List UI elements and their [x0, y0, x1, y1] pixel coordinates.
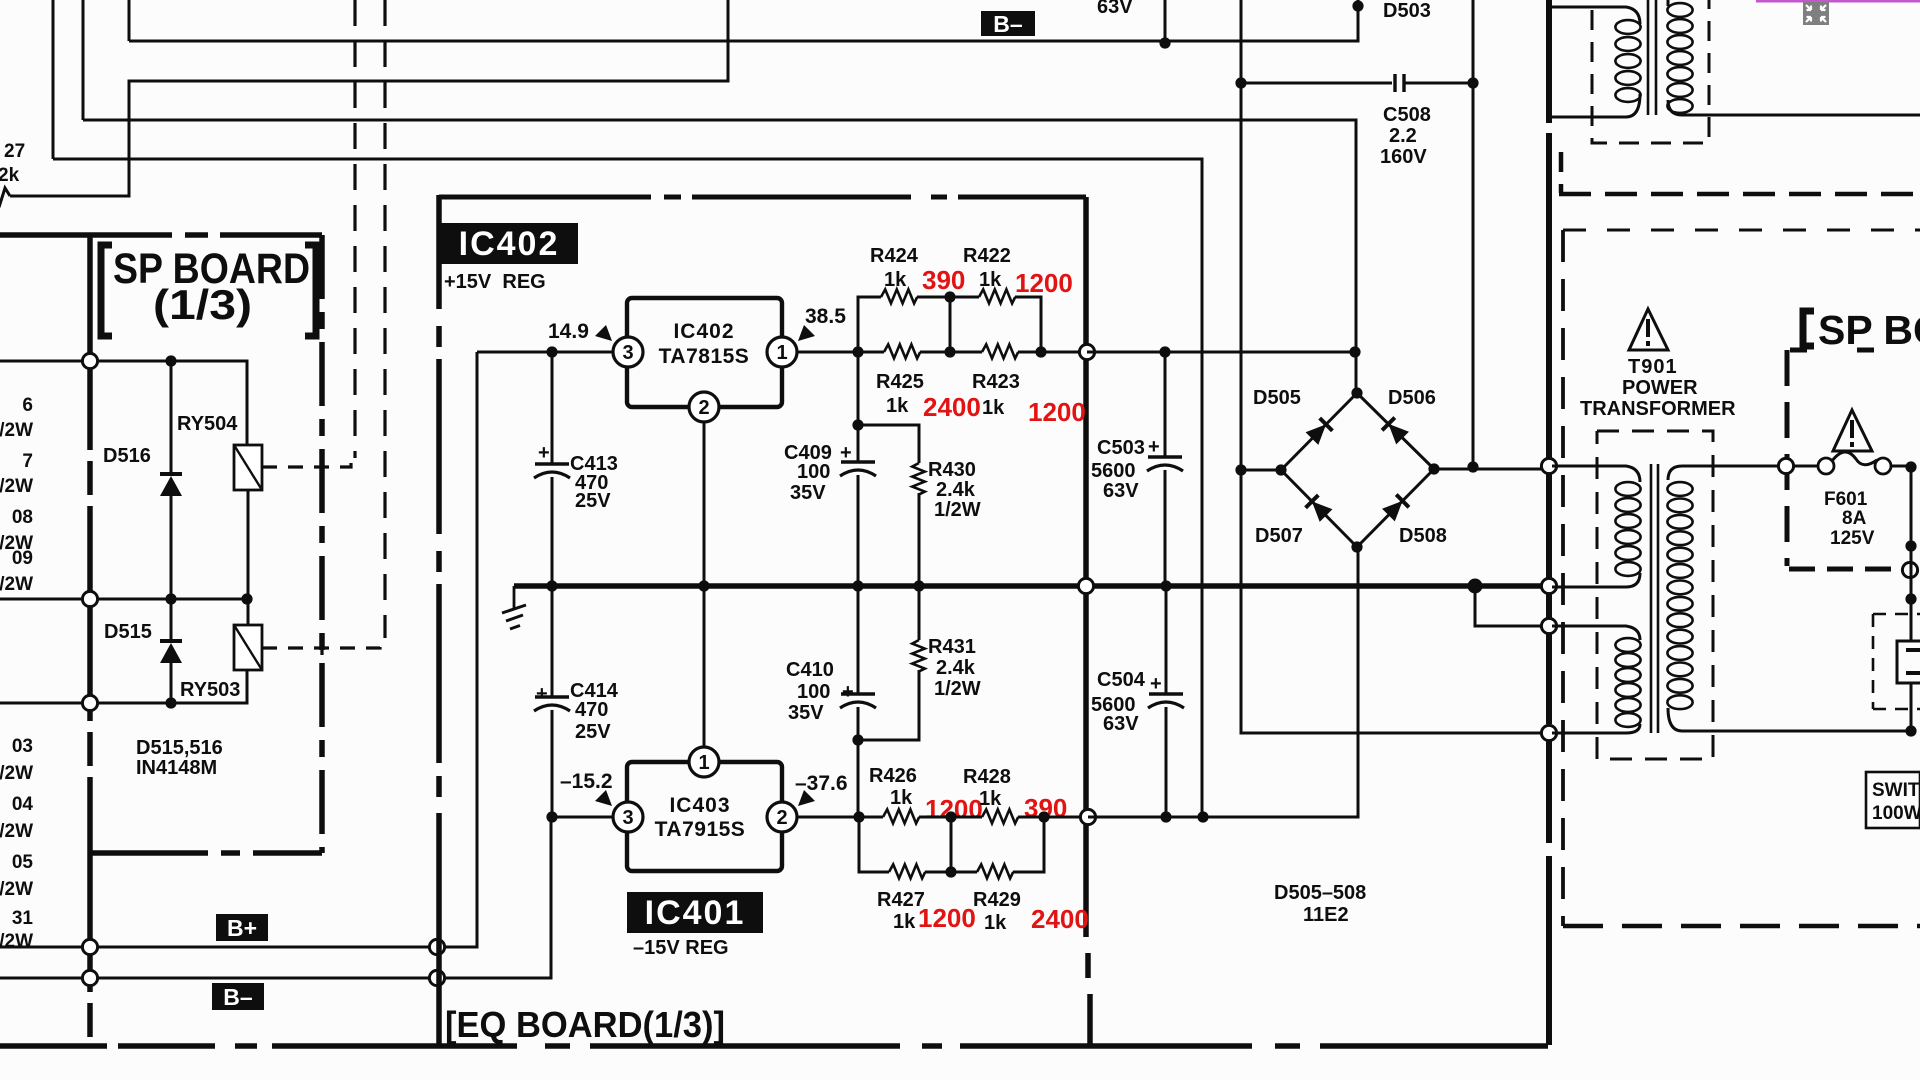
- wire B- into IC403 pin3: [551, 816, 613, 819]
- wire R424 to node: [917, 296, 950, 299]
- wire -15V rail: [1088, 547, 1358, 817]
- transformer T901 upper primary bottom lead: [1552, 94, 1640, 117]
- svg-text:11E2: 11E2: [1303, 904, 1349, 926]
- label red 1200 R426: [925, 794, 983, 824]
- connector circle winding2 bottom: [1541, 725, 1556, 740]
- label C503 value: [1091, 460, 1136, 482]
- svg-text:F601: F601: [1824, 489, 1868, 510]
- wire R423 to boundary: [1018, 351, 1086, 354]
- svg-text:1k: 1k: [890, 787, 913, 809]
- svg-text:IC402: IC402: [459, 225, 560, 263]
- gray collapse icon: [1803, 2, 1829, 25]
- label SP BOARD text: [113, 245, 310, 293]
- connector circle B- at x90: [82, 970, 97, 985]
- svg-text:1k: 1k: [886, 395, 909, 417]
- node C413 top: [546, 346, 557, 357]
- svg-text:R430: R430: [928, 459, 976, 481]
- svg-text:/2W: /2W: [0, 879, 33, 900]
- node switch line mid1: [1905, 540, 1916, 551]
- wire C503 lower lead: [1164, 470, 1167, 586]
- node D503 junction: [1352, 0, 1363, 11]
- svg-text:POWER: POWER: [1622, 377, 1698, 399]
- EQ board bottom boundary: [0, 1043, 1548, 1049]
- label R422: [963, 245, 1011, 267]
- warning triangle T901: [1629, 309, 1668, 350]
- svg-text:R424: R424: [870, 245, 919, 267]
- label R428: [963, 766, 1011, 788]
- wire R422 from node: [950, 296, 979, 299]
- svg-text:R423: R423: [972, 371, 1020, 393]
- SP board bottom boundary: [90, 850, 322, 856]
- label C414 plus: [536, 683, 548, 705]
- node D515 bottom: [165, 697, 176, 708]
- label D505: [1253, 387, 1301, 409]
- capacitor C409: [840, 462, 876, 476]
- label C508: [1383, 104, 1431, 126]
- labels left margin cut-off component values: [0, 395, 33, 952]
- svg-text:04: 04: [12, 794, 34, 815]
- label C508 value: [1389, 125, 1417, 147]
- svg-text:470: 470: [575, 699, 608, 721]
- wire R429 right corner up: [1013, 817, 1044, 872]
- wire outlet to AC return: [1910, 683, 1913, 731]
- wire R422 right corner down: [1015, 297, 1041, 352]
- label red 2400 R429: [1031, 904, 1089, 934]
- transformer T901 upper secondary top lead: [1667, 0, 1670, 6]
- label C504: [1097, 669, 1146, 691]
- label RY504: [177, 413, 238, 435]
- svg-text:R422: R422: [963, 245, 1011, 267]
- node switch line mid2: [1905, 593, 1916, 604]
- wire C413 upper lead: [551, 352, 554, 463]
- label C409 plus: [840, 442, 852, 464]
- svg-text:C508: C508: [1383, 104, 1431, 126]
- AC outlet symbol: [1897, 641, 1920, 683]
- svg-text:1k: 1k: [884, 269, 907, 291]
- label C504 value: [1091, 694, 1136, 716]
- wire C508 left lead: [1241, 82, 1392, 85]
- svg-text:63V: 63V: [1103, 480, 1139, 502]
- magenta top bar: [1756, 0, 1920, 3]
- transformer T901 upper secondary bottom lead: [1668, 100, 1920, 115]
- label C410 value: [797, 681, 830, 703]
- svg-text:–37.6: –37.6: [795, 772, 848, 795]
- wire D516 branch lower: [170, 496, 173, 599]
- wire C410 upper lead: [857, 586, 860, 693]
- svg-text:125V: 125V: [1830, 528, 1875, 549]
- IC402 pin 2: [689, 392, 719, 422]
- svg-text:/2W: /2W: [0, 821, 33, 842]
- label red 1200 R427: [918, 903, 976, 933]
- transformer T901 primary bottom lead: [1668, 708, 1911, 731]
- svg-text:R426: R426: [869, 765, 917, 787]
- wire C504 lower lead: [1165, 707, 1168, 817]
- svg-text:3: 3: [622, 807, 633, 829]
- capacitor C410: [840, 694, 876, 708]
- node minus row mid: [945, 811, 956, 822]
- diode D515: [160, 641, 182, 663]
- connector circle ground at PS boundary: [1541, 578, 1556, 593]
- transformer T901 primary winding: [1667, 482, 1692, 709]
- svg-text:2400: 2400: [1031, 904, 1089, 934]
- svg-text:TRANSFORMER: TRANSFORMER: [1580, 398, 1736, 420]
- svg-text:B–: B–: [993, 11, 1023, 37]
- svg-text:05: 05: [12, 852, 34, 873]
- wire IC402 pin2 to ground bus: [703, 422, 706, 586]
- warning triangle F601: [1833, 410, 1872, 451]
- svg-text:2400: 2400: [923, 392, 981, 422]
- node main row left: [852, 346, 863, 357]
- dashed control line to RY504 vertical: [353, 0, 356, 458]
- svg-text:R428: R428: [963, 766, 1011, 788]
- IC402 pin 3: [613, 337, 643, 367]
- svg-text:B–: B–: [223, 984, 253, 1010]
- svg-text:D505–508: D505–508: [1274, 882, 1366, 904]
- label R427: [877, 889, 925, 911]
- svg-text:B+: B+: [227, 915, 257, 941]
- svg-text:+15V REG: +15V REG: [444, 271, 546, 293]
- inner dashed left boundary: [1561, 230, 1565, 926]
- transformer T901 upper core: [1648, 0, 1656, 115]
- svg-text:/2W: /2W: [0, 931, 33, 952]
- wire B- rail: [0, 817, 551, 978]
- label R423: [972, 371, 1020, 393]
- wire y81 link: [10, 0, 728, 196]
- label R430 value: [936, 479, 976, 501]
- capacitor C503: [1147, 457, 1183, 471]
- label C413 plus: [538, 442, 550, 464]
- wire R426 to node: [919, 816, 982, 819]
- resistor R423: [982, 344, 1018, 358]
- node bus C413: [546, 580, 557, 591]
- crossing tick RY504 dash at boundary: [320, 460, 323, 474]
- wire bridge arm D506: [1357, 393, 1434, 469]
- svg-text:14.9: 14.9: [548, 320, 589, 343]
- node R430 branch: [852, 419, 863, 430]
- svg-text:(1/3): (1/3): [153, 281, 252, 328]
- label C413 value: [575, 472, 608, 494]
- resistor R427: [889, 864, 925, 878]
- wire R431 upper lead: [918, 586, 921, 640]
- label D515: [104, 621, 152, 643]
- connector circle F601 line: [1778, 458, 1793, 473]
- label SP BOARD (1/3): [153, 281, 252, 328]
- label C410 voltage: [788, 702, 824, 724]
- node bus center tap: [1468, 579, 1483, 594]
- label D507: [1255, 525, 1303, 547]
- svg-text:D503: D503: [1383, 0, 1431, 22]
- svg-text:+: +: [1148, 436, 1160, 458]
- node minus row left: [853, 811, 864, 822]
- wire D515 branch lower: [170, 663, 173, 703]
- connector circle B- at x437: [429, 970, 444, 985]
- svg-text:RY504: RY504: [177, 413, 238, 435]
- svg-text:/2W: /2W: [0, 763, 33, 784]
- connector circle boundary x90 y361: [82, 353, 97, 368]
- IC403 pin 2: [767, 802, 797, 832]
- arrow at IC403 pin3: [595, 790, 612, 806]
- transformer T901 upper primary winding: [1615, 20, 1640, 102]
- node D515 top: [165, 593, 176, 604]
- label R428 1k: [979, 788, 1002, 810]
- node relay column y599: [241, 593, 252, 604]
- svg-text:D505: D505: [1253, 387, 1301, 409]
- svg-text:–15.2: –15.2: [560, 770, 613, 793]
- arrow at IC402 pin3: [595, 325, 612, 341]
- node AC return corner: [1905, 725, 1916, 736]
- svg-text:/2W: /2W: [0, 476, 33, 497]
- label -15.2: [560, 770, 613, 793]
- label IN4148M: [136, 757, 217, 779]
- connector circle B+ at x437: [429, 939, 444, 954]
- diode D505: [1306, 418, 1333, 445]
- node C508 left: [1235, 77, 1246, 88]
- svg-text:+: +: [1150, 673, 1162, 695]
- wire D503 stub to top: [1357, 0, 1360, 6]
- relay RY503: [234, 625, 262, 670]
- svg-text:/2W: /2W: [0, 420, 33, 441]
- wire C414 upper lead: [551, 586, 554, 696]
- label IC403 in box: [669, 794, 730, 817]
- wire into fuse: [1794, 465, 1818, 468]
- transformer upper dashed box: [1592, 0, 1709, 143]
- svg-text:1k: 1k: [893, 911, 916, 933]
- dashed control line RY503 horizontal: [262, 640, 380, 648]
- svg-text:R425: R425: [876, 371, 924, 393]
- resistor R431: [912, 640, 925, 671]
- node main row mid: [944, 346, 955, 357]
- svg-text:03: 03: [12, 736, 33, 757]
- node AC left at bridge: [1235, 464, 1246, 475]
- svg-text:2.4k: 2.4k: [936, 479, 976, 501]
- label C504 plus: [1150, 673, 1162, 695]
- label IC401 inverted: [627, 892, 763, 933]
- label R422 1k: [979, 269, 1002, 291]
- label red 390 R428: [1024, 793, 1067, 823]
- label B- top inverted: [981, 11, 1035, 37]
- wire bridge arm D505: [1281, 393, 1357, 470]
- wire D515 branch upper: [170, 599, 173, 641]
- ground bus: [514, 583, 1549, 589]
- label R429: [973, 889, 1021, 911]
- wire bridge arm D507: [1281, 470, 1357, 547]
- resistor R422: [979, 289, 1015, 303]
- label red 390 top: [922, 265, 965, 295]
- node rail y159 at minus bus: [1197, 811, 1208, 822]
- label -37.6: [795, 772, 848, 795]
- svg-text:63V: 63V: [1097, 0, 1133, 18]
- power board boundary vertical: [1546, 0, 1552, 1045]
- transformer T901 lower core: [1651, 464, 1658, 733]
- label T901: [1628, 356, 1678, 378]
- svg-text:27: 27: [4, 141, 25, 162]
- node 63V stub junction: [1159, 37, 1170, 48]
- svg-text:SWIT: SWIT: [1872, 780, 1920, 801]
- wire IC403 pin1 to ground bus: [703, 586, 706, 747]
- inner dashed bottom boundary: [1563, 924, 1920, 929]
- wire R427 to node: [925, 871, 977, 874]
- svg-text:25V: 25V: [575, 490, 611, 512]
- transformer T901 winding A top lead: [1552, 466, 1640, 482]
- svg-text:TA7915S: TA7915S: [655, 818, 746, 841]
- svg-text:TA7815S: TA7815S: [659, 345, 750, 368]
- SP right board top boundary corner: [1559, 152, 1564, 193]
- label R424: [870, 245, 919, 267]
- wire IC402 pin1 out: [797, 351, 858, 354]
- resistor R424: [881, 289, 917, 303]
- svg-text:IC403: IC403: [669, 794, 730, 817]
- label C409: [784, 442, 832, 464]
- node C504 bottom: [1160, 811, 1171, 822]
- label C413: [570, 453, 618, 475]
- label R423 1k: [982, 397, 1005, 419]
- svg-text:C410: C410: [786, 659, 834, 681]
- resistor R426: [883, 809, 919, 823]
- label 100W: [1872, 803, 1920, 824]
- wire R431 bottom link: [858, 733, 919, 740]
- label RY503: [180, 679, 240, 701]
- diode D507: [1306, 495, 1333, 522]
- svg-text:D507: D507: [1255, 525, 1303, 547]
- transformer T901 winding A: [1615, 482, 1640, 576]
- label D503: [1383, 0, 1431, 22]
- label R426: [869, 765, 917, 787]
- wire R430 branch horizontal: [858, 425, 919, 463]
- crossing tick RY503 dash at boundary: [320, 641, 323, 655]
- label D515,516: [136, 737, 223, 759]
- label POWER: [1622, 377, 1698, 399]
- svg-text:D508: D508: [1399, 525, 1447, 547]
- node bus R430: [913, 580, 924, 591]
- SP board right boundary vertical: [319, 235, 325, 853]
- outlet dashed box: [1873, 614, 1920, 709]
- svg-text:25V: 25V: [575, 721, 611, 743]
- label C503 voltage: [1103, 480, 1139, 502]
- label R429 1k: [984, 912, 1007, 934]
- label TRANSFORMER: [1580, 398, 1736, 420]
- label SP BO text: [1818, 307, 1920, 353]
- inner dashed top boundary: [1563, 229, 1920, 232]
- wire C410 lower lead: [857, 707, 860, 817]
- resistor R427-left partial zigzag: [0, 188, 10, 204]
- svg-text:D515: D515: [104, 621, 152, 643]
- label C508 voltage: [1380, 146, 1427, 168]
- wire R424 branch left riser: [858, 297, 881, 352]
- transformer T901 winding A bottom lead: [1552, 573, 1640, 587]
- label C410 plus: [842, 681, 854, 703]
- arrow at IC403 pin2: [798, 790, 815, 806]
- svg-text:+: +: [538, 442, 550, 464]
- wire relay top rail y361: [0, 361, 247, 445]
- label C410: [786, 659, 834, 681]
- svg-text:6: 6: [22, 395, 33, 416]
- svg-text:/2W: /2W: [0, 574, 33, 595]
- svg-text:1k: 1k: [979, 269, 1002, 291]
- label F601: [1824, 489, 1868, 510]
- svg-text:D516: D516: [103, 445, 151, 467]
- wire AC left riser lower run: [1241, 470, 1549, 733]
- SP right inner boundary corner: [1785, 350, 1790, 566]
- label 27 partial: [4, 141, 25, 162]
- svg-text:3: 3: [622, 342, 633, 364]
- capacitor C508: [1395, 74, 1404, 92]
- wire C414 lower lead: [551, 710, 554, 817]
- svg-text:D515,516: D515,516: [136, 737, 223, 759]
- node +15V at bridge riser: [1349, 346, 1360, 357]
- svg-text:IN4148M: IN4148M: [136, 757, 217, 779]
- wire vertical from top to y159 line: [52, 0, 55, 159]
- SP right inner boundary top dashes: [1790, 348, 1920, 353]
- svg-text:390: 390: [922, 265, 965, 295]
- svg-text:5600: 5600: [1091, 460, 1136, 482]
- wire center tap jog: [1475, 586, 1549, 626]
- svg-text:100W: 100W: [1872, 803, 1920, 824]
- wire B+ raw rail y120 to bridge: [83, 120, 1356, 393]
- label R431: [928, 636, 976, 658]
- label red 2400 mid: [923, 392, 981, 422]
- label D506: [1388, 387, 1436, 409]
- SP board left boundary vertical: [87, 235, 93, 1045]
- wire C409 node riser: [857, 352, 860, 461]
- relay RY504: [234, 445, 262, 490]
- connector circle boundary x90 y703: [82, 695, 97, 710]
- label C409 value: [797, 461, 830, 483]
- svg-text:1: 1: [776, 342, 787, 364]
- node bridge top corner: [1351, 387, 1362, 398]
- svg-text:IC402: IC402: [673, 320, 734, 343]
- label C414 value: [575, 699, 608, 721]
- svg-text:1/2W: 1/2W: [934, 499, 981, 521]
- svg-text:63V: 63V: [1103, 713, 1139, 735]
- node C410 R431 junction: [852, 734, 863, 745]
- svg-text:100: 100: [797, 461, 830, 483]
- label TA7915S: [655, 818, 746, 841]
- node bus C503: [1160, 580, 1171, 591]
- capacitor C413: [534, 464, 570, 478]
- label R427 1k: [893, 911, 916, 933]
- label D505-508: [1274, 882, 1366, 904]
- wire C503 upper lead: [1164, 352, 1167, 456]
- resistor R429: [977, 864, 1013, 878]
- label C414: [570, 680, 619, 702]
- svg-text:R429: R429: [973, 889, 1021, 911]
- svg-text:35V: 35V: [788, 702, 824, 724]
- connector circle +15V at EQ boundary: [1079, 344, 1094, 359]
- svg-text:38.5: 38.5: [805, 305, 846, 328]
- label 2k partial: [0, 165, 20, 186]
- node switch line upper: [1905, 461, 1916, 472]
- wire AC left riser: [1240, 0, 1243, 470]
- IC402 pin 1: [767, 337, 797, 367]
- svg-text:[EQ BOARD(1/3)]: [EQ BOARD(1/3)]: [445, 1004, 725, 1045]
- EQ board left boundary: [436, 195, 442, 1045]
- label R431 wattage: [934, 678, 981, 700]
- label B+ inverted: [216, 914, 268, 941]
- wire C413 lower lead: [551, 477, 554, 586]
- node D516 top: [165, 355, 176, 366]
- svg-text:2k: 2k: [0, 165, 20, 186]
- transformer lower dashed box: [1597, 431, 1713, 759]
- resistor R428: [982, 809, 1018, 823]
- label -15V REG: [633, 937, 729, 959]
- svg-text:2.4k: 2.4k: [936, 657, 976, 679]
- svg-text:IC401: IC401: [645, 894, 746, 932]
- node bridge left corner: [1275, 464, 1286, 475]
- EQ board top boundary: [439, 195, 1086, 200]
- svg-text:2: 2: [776, 807, 787, 829]
- label R430: [928, 459, 976, 481]
- svg-text:–15V REG: –15V REG: [633, 937, 729, 959]
